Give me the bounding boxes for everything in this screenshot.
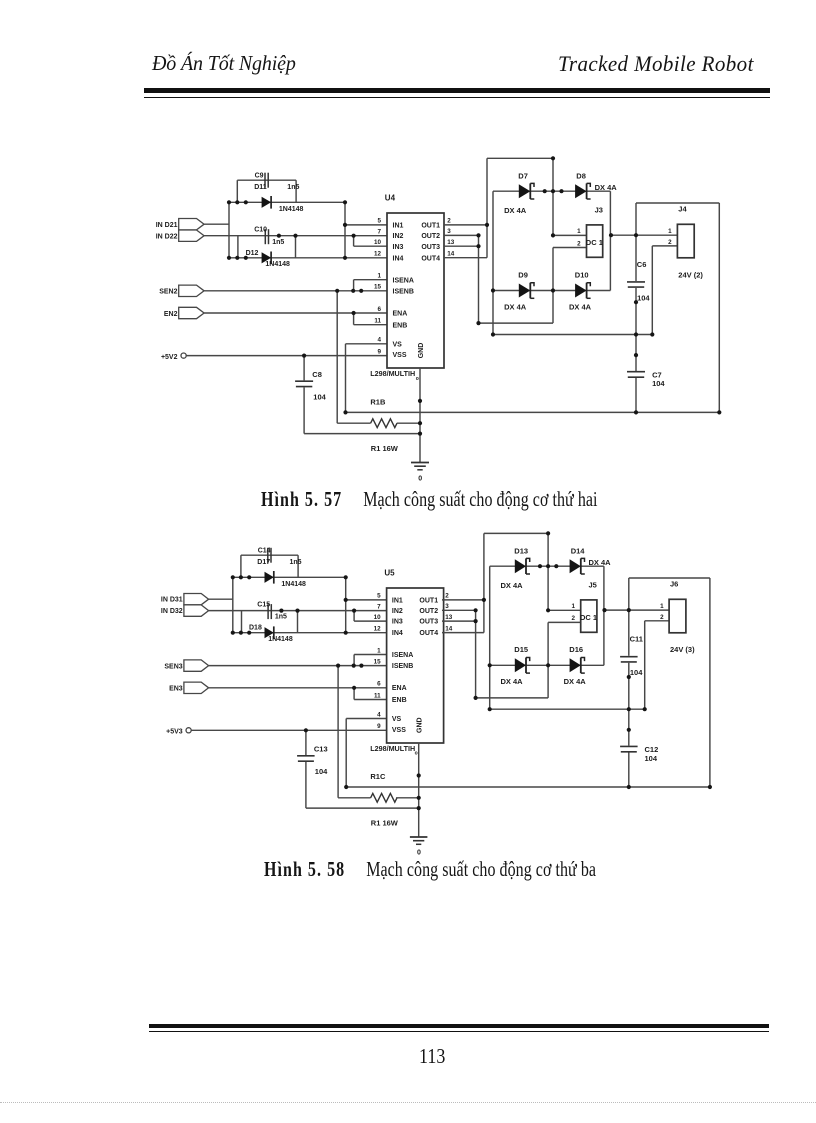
svg-text:OUT4: OUT4 <box>419 630 438 637</box>
junction <box>634 332 638 336</box>
junction <box>343 256 347 260</box>
wire <box>628 663 630 746</box>
svg-text:IN D32: IN D32 <box>161 608 183 615</box>
junction <box>476 321 480 325</box>
wire <box>337 666 339 798</box>
junction <box>476 233 480 237</box>
svg-text:104: 104 <box>645 754 658 763</box>
input connector SEN3 <box>164 660 208 671</box>
footer rule thin <box>149 1031 769 1032</box>
svg-text:1n5: 1n5 <box>272 239 284 246</box>
ground <box>411 463 429 483</box>
junction <box>231 575 235 579</box>
wire <box>547 622 549 698</box>
diode D18 <box>249 625 274 639</box>
wire <box>493 334 652 336</box>
svg-text:1N4148: 1N4148 <box>265 261 290 268</box>
svg-text:J4: J4 <box>678 204 687 213</box>
junction <box>627 728 631 732</box>
svg-text:1: 1 <box>377 273 381 280</box>
svg-text:2: 2 <box>577 240 581 247</box>
caption figure 5.57 <box>261 489 598 512</box>
diode D12 <box>246 250 272 264</box>
junction <box>336 664 340 668</box>
junction <box>344 631 348 635</box>
junction <box>609 233 613 237</box>
power terminal +5V3 <box>166 728 191 736</box>
wire <box>295 236 297 258</box>
junction <box>627 785 631 789</box>
svg-text:C15: C15 <box>257 602 270 609</box>
wire <box>353 655 355 666</box>
svg-text:DX 4A: DX 4A <box>501 677 524 686</box>
junction <box>650 332 654 336</box>
svg-text:C11: C11 <box>630 635 643 644</box>
wire <box>297 611 299 633</box>
svg-text:IN4: IN4 <box>392 630 403 637</box>
junction <box>559 189 563 193</box>
svg-text:VS: VS <box>393 341 403 348</box>
junction <box>538 564 542 568</box>
wire <box>610 234 677 236</box>
wire <box>493 190 610 192</box>
wire <box>548 621 581 623</box>
resistor R1 <box>371 793 397 802</box>
op-amp U4 L298 <box>385 194 444 369</box>
svg-text:13: 13 <box>447 239 455 246</box>
junction <box>634 300 638 304</box>
svg-text:OUT1: OUT1 <box>419 597 438 604</box>
junction <box>235 256 239 260</box>
diode D10 <box>575 270 591 298</box>
diode D15 <box>514 645 530 673</box>
wire <box>354 699 387 701</box>
capacitor C12 <box>620 745 658 754</box>
junction <box>627 675 631 679</box>
wire <box>635 288 637 371</box>
svg-text:C8: C8 <box>312 370 322 379</box>
junction <box>279 609 283 613</box>
junction <box>551 288 555 292</box>
capacitor C11 <box>620 635 643 662</box>
junction <box>417 796 421 800</box>
junction <box>546 608 550 612</box>
wire <box>237 236 239 258</box>
junction <box>239 631 243 635</box>
capacitor C13 <box>297 744 328 761</box>
svg-text:2: 2 <box>660 614 664 621</box>
wire <box>645 620 669 622</box>
junction <box>351 289 355 293</box>
svg-text:2: 2 <box>571 615 575 622</box>
svg-text:R1 16W: R1 16W <box>371 444 399 453</box>
junction <box>627 608 631 612</box>
svg-text:EN3: EN3 <box>169 686 183 693</box>
svg-text:104: 104 <box>630 668 643 677</box>
junction <box>546 663 550 667</box>
svg-text:104: 104 <box>637 293 650 302</box>
capacitor C10 <box>254 227 268 245</box>
diode D11 <box>254 184 271 208</box>
connector J6 <box>669 579 695 654</box>
svg-text:1: 1 <box>660 603 664 610</box>
page number <box>419 1044 445 1069</box>
wire <box>475 610 477 698</box>
junction <box>476 244 480 248</box>
svg-text:104: 104 <box>652 379 665 388</box>
svg-text:OUT2: OUT2 <box>421 233 440 240</box>
junction <box>708 785 712 789</box>
svg-text:12: 12 <box>374 251 382 258</box>
wire <box>345 224 387 226</box>
svg-text:D7: D7 <box>518 172 528 181</box>
svg-text:2: 2 <box>668 239 672 246</box>
svg-text:13: 13 <box>445 614 453 621</box>
header rule thick <box>144 88 770 93</box>
junction <box>227 200 231 204</box>
svg-text:J6: J6 <box>670 579 678 588</box>
junction <box>344 785 348 789</box>
wire <box>552 248 554 324</box>
junction <box>554 564 558 568</box>
capacitor C7 <box>627 371 662 380</box>
svg-text:IN D31: IN D31 <box>161 597 183 604</box>
junction <box>491 332 495 336</box>
wire <box>305 762 307 808</box>
wire <box>548 609 581 611</box>
svg-text:2: 2 <box>447 218 451 225</box>
svg-text:IN1: IN1 <box>392 597 403 604</box>
wire <box>442 632 484 634</box>
wire <box>354 620 387 622</box>
wire <box>353 236 355 247</box>
wire <box>346 786 710 788</box>
svg-text:L298/MULTIH: L298/MULTIH <box>370 369 415 378</box>
wire <box>204 223 229 225</box>
junction <box>352 664 356 668</box>
wire <box>204 235 387 237</box>
svg-text:+5V2: +5V2 <box>161 354 178 361</box>
svg-text:15: 15 <box>374 284 382 291</box>
connector J5 DC1 <box>580 580 597 632</box>
capacitor C8 <box>295 370 322 387</box>
wire <box>241 611 243 633</box>
svg-text:OUT2: OUT2 <box>419 608 438 615</box>
wire <box>305 730 307 755</box>
junction <box>485 223 489 227</box>
junction <box>231 631 235 635</box>
junction <box>417 773 421 777</box>
wire <box>636 202 719 204</box>
junction <box>247 631 251 635</box>
svg-text:D9: D9 <box>518 270 528 279</box>
wire <box>303 387 305 433</box>
wire <box>232 577 234 632</box>
wire <box>304 433 420 435</box>
junction <box>352 686 356 690</box>
svg-text:D8: D8 <box>576 172 586 181</box>
power terminal +5V2 <box>161 353 186 361</box>
svg-text:10: 10 <box>374 239 382 246</box>
svg-text:14: 14 <box>447 251 455 258</box>
svg-text:ENA: ENA <box>392 685 407 692</box>
wire <box>709 578 711 787</box>
svg-text:12: 12 <box>374 626 382 633</box>
svg-text:D14: D14 <box>571 547 586 556</box>
wire <box>337 422 370 424</box>
svg-text:D15: D15 <box>514 645 528 654</box>
svg-text:J3: J3 <box>595 205 603 214</box>
svg-text:3: 3 <box>445 603 449 610</box>
wire <box>635 378 637 413</box>
svg-text:VS: VS <box>392 716 402 723</box>
junction <box>344 598 348 602</box>
svg-text:4: 4 <box>377 711 381 718</box>
diode D8 <box>575 172 591 199</box>
junction <box>343 200 347 204</box>
svg-text:1: 1 <box>668 228 672 235</box>
wire <box>228 202 230 257</box>
wire <box>547 533 549 610</box>
wire <box>191 729 386 731</box>
wire <box>718 203 720 412</box>
svg-text:1: 1 <box>377 647 381 654</box>
svg-text:1N4148: 1N4148 <box>268 636 293 643</box>
wire <box>295 180 297 202</box>
junction <box>247 575 251 579</box>
svg-text:5: 5 <box>377 593 381 600</box>
svg-text:C14: C14 <box>258 548 271 555</box>
svg-text:o: o <box>415 750 418 756</box>
svg-text:C9: C9 <box>255 173 264 180</box>
wire <box>297 555 299 577</box>
wire <box>345 577 347 632</box>
input connector IN D21 <box>156 219 204 230</box>
junction <box>546 564 550 568</box>
svg-text:+5V3: +5V3 <box>166 729 183 736</box>
svg-text:11: 11 <box>374 692 381 699</box>
wire <box>354 654 387 656</box>
svg-text:1n5: 1n5 <box>287 184 299 191</box>
svg-text:EN2: EN2 <box>164 311 178 318</box>
junction <box>482 598 486 602</box>
wire <box>628 578 630 656</box>
connector J4 <box>677 204 703 279</box>
wire <box>552 158 554 235</box>
svg-text:ENB: ENB <box>393 322 408 329</box>
svg-text:DX 4A: DX 4A <box>589 558 612 567</box>
wire <box>186 355 387 357</box>
junction <box>417 806 421 810</box>
svg-text:24V (3): 24V (3) <box>670 645 695 654</box>
svg-text:3: 3 <box>447 228 451 235</box>
svg-text:OUT3: OUT3 <box>419 619 438 626</box>
svg-text:DX 4A: DX 4A <box>504 302 527 311</box>
svg-text:DX 4A: DX 4A <box>504 206 527 215</box>
junction <box>488 663 492 667</box>
svg-text:DX 4A: DX 4A <box>569 302 592 311</box>
svg-text:C6: C6 <box>637 260 647 269</box>
svg-text:1N4148: 1N4148 <box>281 581 306 588</box>
wire <box>418 743 420 837</box>
svg-text:6: 6 <box>377 681 381 688</box>
wire <box>240 555 242 577</box>
junction <box>304 728 308 732</box>
junction <box>418 421 422 425</box>
wire <box>644 621 646 709</box>
junction <box>634 410 638 414</box>
svg-text:C10: C10 <box>254 227 267 234</box>
junction <box>634 353 638 357</box>
diode D14 <box>570 547 586 574</box>
diode D16 <box>569 645 585 673</box>
wire <box>419 368 421 463</box>
wire <box>444 257 487 259</box>
junction <box>277 234 281 238</box>
svg-text:IN2: IN2 <box>392 608 403 615</box>
wire <box>236 180 238 202</box>
svg-text:VSS: VSS <box>392 727 406 734</box>
junction <box>643 707 647 711</box>
svg-text:7: 7 <box>377 603 381 610</box>
junction <box>474 608 478 612</box>
svg-text:DC 1: DC 1 <box>580 613 597 622</box>
svg-text:C13: C13 <box>314 744 328 753</box>
svg-text:1n5: 1n5 <box>275 614 287 621</box>
header right: Tracked Mobile Robot <box>558 51 754 78</box>
wire <box>241 554 298 556</box>
wire <box>487 157 553 159</box>
bottom dotted separator <box>0 1102 816 1103</box>
junction <box>546 531 550 535</box>
junction <box>293 234 297 238</box>
svg-text:L298/MULTIH: L298/MULTIH <box>370 744 415 753</box>
junction <box>344 575 348 579</box>
junction <box>343 410 347 414</box>
svg-text:D16: D16 <box>569 645 583 654</box>
wire <box>209 687 387 689</box>
wire <box>354 279 387 281</box>
wire <box>628 752 630 787</box>
junction <box>244 200 248 204</box>
capacitor C15 <box>257 602 271 620</box>
junction <box>491 288 495 292</box>
wire <box>492 191 494 334</box>
wire <box>442 599 484 601</box>
wire <box>354 324 387 326</box>
svg-text:GND: GND <box>417 717 424 733</box>
svg-text:IN D21: IN D21 <box>156 222 178 229</box>
svg-text:9: 9 <box>377 348 381 355</box>
svg-text:GND: GND <box>418 343 425 359</box>
connector J3 DC1 <box>586 205 603 257</box>
wire <box>204 312 387 314</box>
wire <box>233 632 387 634</box>
svg-text:DX 4A: DX 4A <box>564 677 587 686</box>
junction <box>343 223 347 227</box>
svg-text:D11: D11 <box>254 184 267 191</box>
wire <box>629 577 710 579</box>
svg-text:IN3: IN3 <box>393 244 404 251</box>
svg-text:ENB: ENB <box>392 697 407 704</box>
wire <box>346 411 720 413</box>
wire <box>353 280 355 291</box>
wire <box>303 356 305 381</box>
svg-text:R1C: R1C <box>370 772 386 781</box>
wire <box>486 158 488 257</box>
svg-text:R1B: R1B <box>370 398 386 407</box>
wire <box>346 599 387 601</box>
wire <box>346 718 386 720</box>
svg-text:ISENB: ISENB <box>393 288 414 295</box>
svg-text:J5: J5 <box>589 580 597 589</box>
wire <box>489 566 491 709</box>
wire <box>344 202 346 257</box>
wire <box>652 245 677 247</box>
wire <box>478 235 480 323</box>
wire <box>229 257 387 259</box>
svg-text:1: 1 <box>577 228 581 235</box>
wire <box>229 201 345 203</box>
junction <box>717 410 721 414</box>
junction <box>302 354 306 358</box>
wire <box>396 797 419 799</box>
wire <box>444 234 479 236</box>
svg-text:SEN2: SEN2 <box>159 289 177 296</box>
wire <box>345 719 347 788</box>
junction <box>418 399 422 403</box>
junction <box>551 233 555 237</box>
wire <box>354 245 387 247</box>
wire <box>346 343 388 345</box>
junction <box>474 696 478 700</box>
input connector IN D32 <box>161 605 209 616</box>
wire <box>484 532 548 534</box>
capacitor C6 <box>627 260 646 287</box>
svg-text:ENA: ENA <box>393 310 408 317</box>
diode D13 <box>514 547 530 574</box>
wire <box>345 344 347 413</box>
ground <box>410 837 428 857</box>
svg-text:2: 2 <box>445 593 449 600</box>
input connector EN3 <box>169 682 209 693</box>
caption figure 5.58 <box>264 859 596 882</box>
svg-text:ISENA: ISENA <box>393 277 414 284</box>
svg-text:D17: D17 <box>257 559 270 566</box>
wire <box>493 290 610 292</box>
svg-text:IN D22: IN D22 <box>156 233 178 240</box>
junction <box>239 575 243 579</box>
wire <box>237 179 296 181</box>
resistor R1 <box>371 419 397 428</box>
svg-text:5: 5 <box>377 218 381 225</box>
diode D17 <box>257 559 274 583</box>
op-amp U5 L298 <box>384 569 443 744</box>
svg-text:D10: D10 <box>575 270 589 279</box>
svg-text:IN4: IN4 <box>393 255 404 262</box>
input connector SEN2 <box>159 285 204 296</box>
svg-text:IN1: IN1 <box>393 222 404 229</box>
junction <box>602 608 606 612</box>
wire <box>336 291 338 423</box>
junction <box>227 256 231 260</box>
wire <box>353 688 355 700</box>
wire <box>209 610 387 612</box>
svg-text:R1 16W: R1 16W <box>371 818 399 827</box>
wire <box>604 609 669 611</box>
junction <box>474 619 478 623</box>
svg-text:D18: D18 <box>249 625 262 632</box>
